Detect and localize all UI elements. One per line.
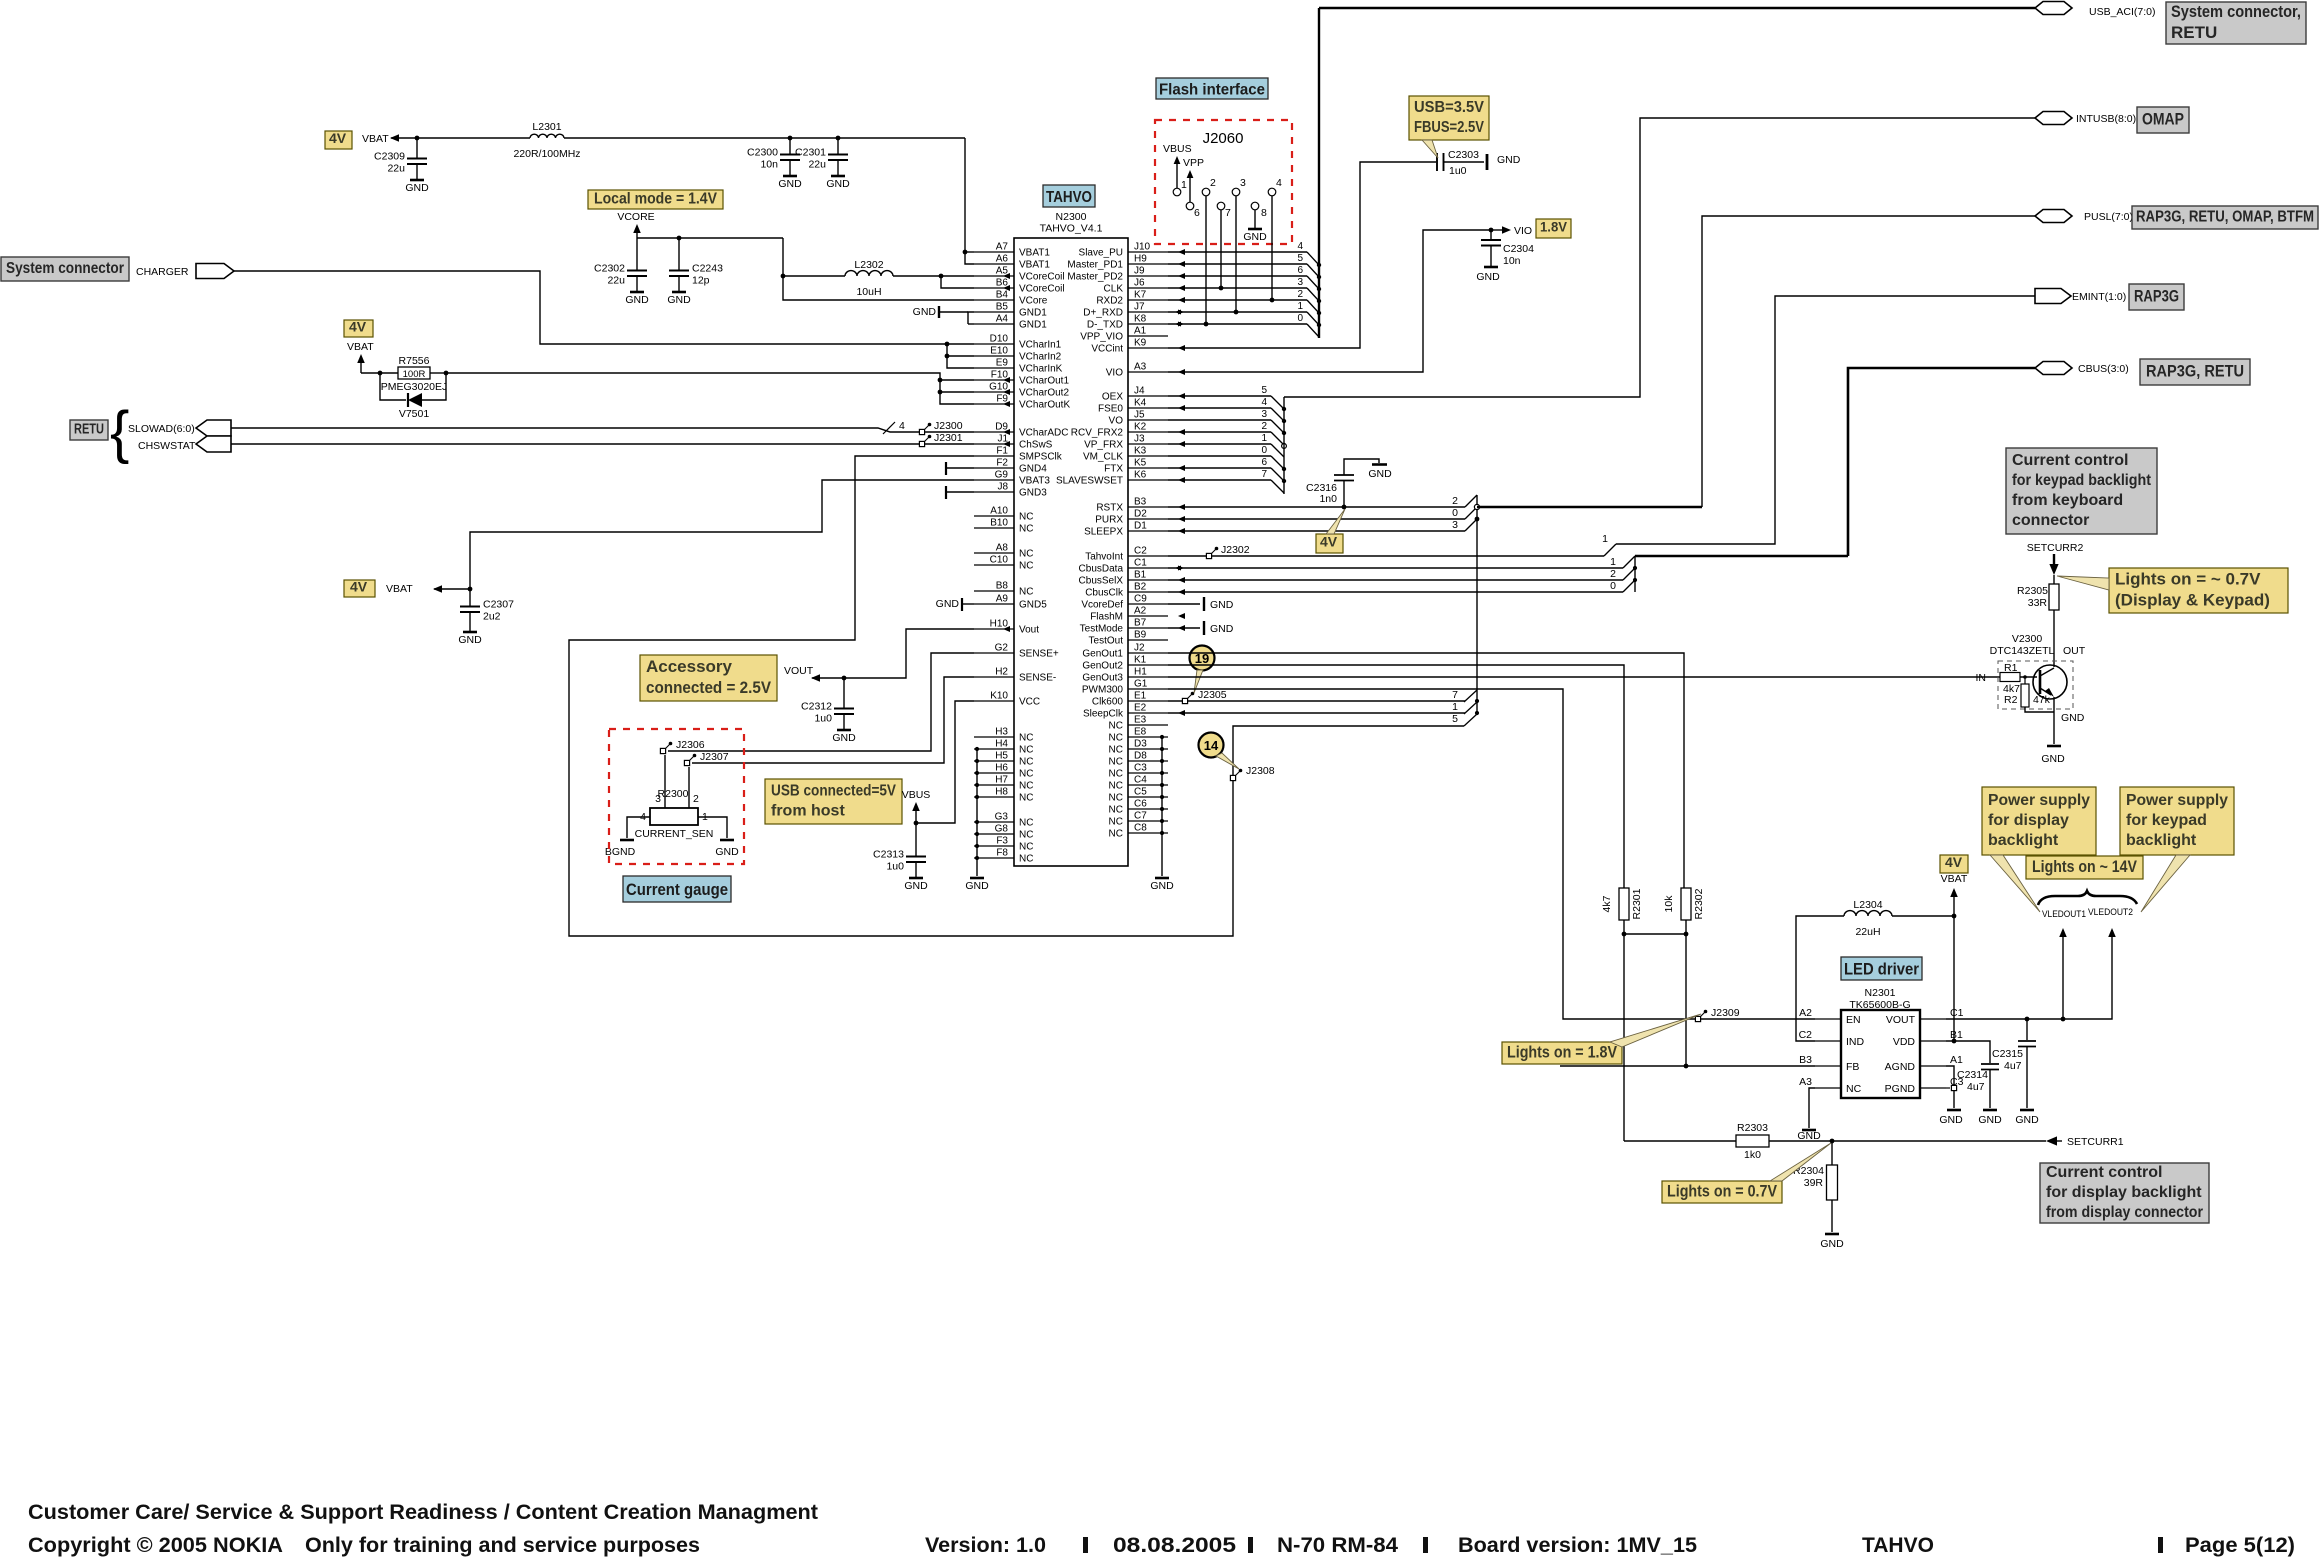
- svg-text:CbusData: CbusData: [1079, 564, 1124, 575]
- svg-text:22uH: 22uH: [1855, 926, 1880, 938]
- connector flag CHSWSTAT: [196, 436, 231, 452]
- svg-text:NC: NC: [1019, 769, 1033, 780]
- svg-text:VOUT: VOUT: [1886, 1014, 1916, 1026]
- svg-text:J4: J4: [1134, 386, 1145, 397]
- svg-text:K8: K8: [1134, 314, 1147, 325]
- wire VCC: [916, 701, 974, 823]
- svg-text:A2: A2: [1799, 1007, 1812, 1019]
- svg-text:4k7: 4k7: [1601, 895, 1613, 912]
- wire SLOWAD to VCharADC: [231, 428, 974, 432]
- INTUSB bus route: [1284, 118, 2035, 397]
- svg-text:GND: GND: [904, 880, 928, 892]
- svg-text:for display backlight: for display backlight: [2046, 1184, 2202, 1201]
- pin direction arrows: [1003, 273, 1010, 279]
- PUSL bus vertical: [1476, 495, 1478, 714]
- svg-text:FlashM: FlashM: [1090, 612, 1123, 623]
- svg-text:0: 0: [1297, 313, 1303, 324]
- svg-text:1u0: 1u0: [814, 713, 832, 725]
- svg-text:C2243: C2243: [692, 263, 723, 275]
- svg-text:3: 3: [1297, 277, 1303, 288]
- BGND lead: [627, 817, 650, 838]
- svg-text:VBAT: VBAT: [1941, 873, 1968, 885]
- svg-text:B5: B5: [996, 302, 1009, 313]
- svg-text:J2300: J2300: [934, 420, 963, 432]
- svg-text:B3: B3: [1134, 497, 1147, 508]
- svg-text:C6: C6: [1134, 799, 1147, 810]
- svg-text:7: 7: [1225, 207, 1231, 219]
- svg-text:GND: GND: [715, 846, 739, 858]
- svg-text:RETU: RETU: [74, 421, 104, 438]
- USB voltage annotation: [1409, 96, 1489, 140]
- TAHVO blue label: [1043, 185, 1095, 207]
- svg-text:GND: GND: [2015, 1114, 2039, 1126]
- jumper J2300: [919, 429, 924, 434]
- jumper J2306: [660, 748, 665, 753]
- svg-text:RAP3G, RETU, OMAP, BTFM: RAP3G, RETU, OMAP, BTFM: [2136, 209, 2314, 226]
- RAP3G RETU gray label: [2140, 359, 2250, 385]
- svg-text:VCoreCoil: VCoreCoil: [1019, 272, 1065, 283]
- svg-text:2: 2: [693, 793, 699, 805]
- wire VCCint: [1168, 162, 1436, 348]
- wire down to VBAT1: [965, 138, 974, 264]
- svg-text:NC: NC: [1019, 757, 1033, 768]
- Current control keypad gray label: [2006, 448, 2157, 534]
- jumper J2307: [684, 760, 689, 765]
- wire SETCURR1: [1624, 1140, 1736, 1142]
- svg-text:SETCURR2: SETCURR2: [2027, 542, 2084, 554]
- svg-text:GND: GND: [2041, 753, 2065, 765]
- svg-text:TAHVO: TAHVO: [1046, 189, 1092, 206]
- svg-text:VPP_VIO: VPP_VIO: [1080, 332, 1123, 343]
- svg-text:C2302: C2302: [594, 263, 625, 275]
- svg-text:C2300: C2300: [747, 147, 778, 159]
- svg-text:for keypad: for keypad: [2126, 812, 2207, 829]
- svg-text:B8: B8: [996, 581, 1009, 592]
- svg-text:D2: D2: [1134, 509, 1147, 520]
- svg-text:FTX: FTX: [1104, 464, 1123, 475]
- svg-text:H3: H3: [995, 727, 1008, 738]
- svg-text:SLAVESWSET: SLAVESWSET: [1056, 476, 1123, 487]
- svg-text:C2309: C2309: [374, 151, 405, 163]
- svg-text:J2306: J2306: [676, 739, 705, 751]
- svg-text:J2307: J2307: [700, 751, 729, 763]
- wire IND to L2304: [1796, 916, 1844, 1041]
- svg-text:H5: H5: [995, 751, 1008, 762]
- svg-text:PGND: PGND: [1885, 1083, 1916, 1095]
- callout circle 19: [1190, 646, 1215, 671]
- wire GenOut2 to R2301: [1168, 665, 1624, 888]
- brace over VLEDOUT: [2038, 891, 2137, 905]
- svg-text:J2305: J2305: [1198, 689, 1227, 701]
- 4V annotation (RSTX): [1316, 534, 1343, 553]
- svg-text:5: 5: [1452, 713, 1458, 725]
- svg-text:0: 0: [1261, 445, 1267, 456]
- svg-text:GenOut2: GenOut2: [1082, 661, 1123, 672]
- svg-text:0: 0: [1610, 580, 1616, 592]
- svg-text:PWM300: PWM300: [1082, 685, 1124, 696]
- svg-text:08.08.2005: 08.08.2005: [1113, 1534, 1236, 1557]
- svg-text:H7: H7: [995, 775, 1008, 786]
- svg-text:GND: GND: [936, 598, 960, 610]
- resistor R2301 4k7: [1619, 888, 1629, 920]
- svg-text:VPP: VPP: [1183, 157, 1204, 169]
- svg-text:B9: B9: [1134, 630, 1147, 641]
- svg-text:E3: E3: [1134, 715, 1147, 726]
- svg-text:V7501: V7501: [399, 408, 430, 420]
- svg-text:B1: B1: [1950, 1029, 1963, 1041]
- svg-text:B7: B7: [1134, 618, 1147, 629]
- svg-text:R2300: R2300: [658, 788, 689, 800]
- connector USB_ACI(7:0): [2035, 2, 2072, 15]
- Lights on 1.8V annotation: [1502, 1042, 1622, 1064]
- svg-text:Local mode = 1.4V: Local mode = 1.4V: [594, 191, 717, 208]
- svg-text:100R: 100R: [403, 369, 426, 380]
- wire to B6: [941, 276, 974, 288]
- jumper J2301: [919, 441, 924, 446]
- svg-text:VcoreDef: VcoreDef: [1081, 600, 1123, 611]
- svg-text:Lights on = 0.7V: Lights on = 0.7V: [1667, 1182, 1778, 1201]
- svg-text:FSE0: FSE0: [1098, 404, 1123, 415]
- svg-text:SleepClk: SleepClk: [1083, 709, 1124, 720]
- GND5 tie: [962, 603, 974, 605]
- svg-text:GND: GND: [1820, 1238, 1844, 1250]
- svg-text:VP_FRX: VP_FRX: [1084, 440, 1123, 451]
- current gauge dashed outline: [609, 729, 744, 864]
- NC pin gnd (A3 of N2301): [1809, 1088, 1815, 1128]
- svg-text:CbusSelX: CbusSelX: [1079, 576, 1124, 587]
- wire CHARGER to VCharIn: [234, 271, 974, 344]
- svg-text:VCORE: VCORE: [617, 211, 654, 223]
- svg-text:GND: GND: [778, 178, 802, 190]
- svg-text:G10: G10: [989, 382, 1008, 393]
- svg-text:D3: D3: [1134, 739, 1147, 750]
- IC right pin stubs and labels: [1128, 251, 1168, 253]
- svg-text:GND: GND: [1978, 1114, 2002, 1126]
- GND1 tie (B5/A4): [968, 312, 974, 324]
- System connector RETU gray label: [2166, 2, 2306, 44]
- svg-text:K5: K5: [1134, 458, 1147, 469]
- svg-text:connected = 2.5V: connected = 2.5V: [646, 678, 772, 697]
- svg-text:H8: H8: [995, 787, 1008, 798]
- svg-text:VO: VO: [1109, 416, 1124, 427]
- svg-text:1: 1: [1602, 533, 1608, 545]
- svg-text:2u2: 2u2: [483, 611, 501, 623]
- svg-text:R2305: R2305: [2017, 585, 2048, 597]
- svg-text:NC: NC: [1109, 829, 1123, 840]
- EMINT route: [1616, 296, 2035, 544]
- VcoreDef GND: [1168, 603, 1200, 605]
- svg-text:D8: D8: [1134, 751, 1147, 762]
- svg-text:0: 0: [1452, 507, 1458, 519]
- svg-text:H1: H1: [1134, 667, 1147, 678]
- wire VDD / capacitor C2314: [1946, 1041, 1990, 1063]
- svg-text:J2308: J2308: [1246, 765, 1275, 777]
- svg-text:J8: J8: [997, 482, 1008, 493]
- bus width 1: [1604, 544, 1616, 556]
- capacitor C2303 (horizontal): [1436, 153, 1438, 171]
- svg-text:B1: B1: [1134, 570, 1147, 581]
- SETCURR2 arrow: [2053, 554, 2055, 566]
- svg-text:C2: C2: [1799, 1029, 1813, 1041]
- svg-text:VCharOut1: VCharOut1: [1019, 376, 1069, 387]
- Accessory annotation: [640, 655, 777, 701]
- svg-text:1n0: 1n0: [1319, 493, 1337, 505]
- capacitor C2304: [1490, 230, 1492, 239]
- svg-text:C2315: C2315: [1992, 1048, 2023, 1060]
- svg-text:H6: H6: [995, 763, 1008, 774]
- resistor R2303 1k0: [1736, 1135, 1769, 1147]
- svg-text:1: 1: [1261, 433, 1267, 444]
- svg-text:GND: GND: [1210, 599, 1234, 611]
- svg-text:SMPSClk: SMPSClk: [1019, 452, 1063, 463]
- svg-text:CLK: CLK: [1104, 284, 1124, 295]
- svg-text:NC: NC: [1019, 854, 1033, 865]
- svg-text:22u: 22u: [607, 275, 625, 287]
- svg-text:N-70 RM-84: N-70 RM-84: [1277, 1534, 1398, 1557]
- bus width 4: [883, 422, 895, 434]
- J2060 pins: [1173, 188, 1181, 196]
- jumper J2305: [1182, 698, 1187, 703]
- wires RSTX PURX SLEEPX: [1168, 506, 1465, 508]
- op-amp/IC N2300 TAHVO_V4.1 body: [1014, 238, 1128, 866]
- svg-text:for display: for display: [1988, 812, 2069, 829]
- svg-text:VIO: VIO: [1514, 225, 1532, 237]
- svg-text:A4: A4: [996, 314, 1009, 325]
- svg-text:A8: A8: [996, 543, 1009, 554]
- 4V supply label (top left): [325, 131, 352, 149]
- svg-text:R2303: R2303: [1737, 1122, 1768, 1134]
- svg-text:SETCURR1: SETCURR1: [2067, 1136, 2124, 1148]
- svg-text:USB connected=5V: USB connected=5V: [771, 783, 896, 800]
- svg-text:C8: C8: [1134, 823, 1147, 834]
- svg-text:K3: K3: [1134, 446, 1147, 457]
- svg-text:4u7: 4u7: [2004, 1060, 2022, 1072]
- svg-text:C2304: C2304: [1503, 243, 1534, 255]
- CBUS bus vertical: [1634, 556, 1636, 592]
- svg-text:Lights on = 1.8V: Lights on = 1.8V: [1507, 1043, 1618, 1062]
- connector PUSL(7:0): [2035, 210, 2072, 223]
- svg-text:GND: GND: [458, 634, 482, 646]
- svg-text:E1: E1: [1134, 691, 1147, 702]
- svg-text:GND: GND: [1150, 880, 1174, 892]
- svg-text:GND5: GND5: [1019, 600, 1047, 611]
- R2301/R2302 junction: [1623, 920, 1625, 1141]
- svg-text:VBAT3: VBAT3: [1019, 476, 1050, 487]
- svg-text:G1: G1: [1134, 679, 1148, 690]
- svg-text:2: 2: [1210, 177, 1216, 189]
- wire VOUT: [1946, 930, 2112, 1019]
- svg-text:4V: 4V: [329, 130, 347, 146]
- svg-text:GND: GND: [826, 178, 850, 190]
- svg-text:RETU: RETU: [2171, 23, 2217, 42]
- svg-text:NC: NC: [1109, 769, 1123, 780]
- Current control display gray label: [2040, 1163, 2209, 1223]
- USB connected annotation: [765, 779, 902, 824]
- capacitor C2243: [677, 236, 682, 241]
- svg-text:DTC143ZETL: DTC143ZETL: [1990, 645, 2055, 657]
- callout circle 14: [1199, 733, 1224, 758]
- svg-text:VBAT1: VBAT1: [1019, 248, 1050, 259]
- svg-text:J2301: J2301: [934, 432, 963, 444]
- CBUS bus route: [1635, 555, 1848, 558]
- svg-text:A7: A7: [996, 242, 1009, 253]
- svg-text:GND4: GND4: [1019, 464, 1047, 475]
- svg-text:D+_RXD: D+_RXD: [1083, 308, 1123, 319]
- svg-text:GND1: GND1: [1019, 308, 1047, 319]
- svg-text:NC: NC: [1019, 524, 1033, 535]
- wire to VCoreCoil / L2302: [783, 238, 974, 300]
- svg-text:G9: G9: [995, 470, 1009, 481]
- svg-text:NC: NC: [1019, 830, 1033, 841]
- capacitor C2309: [415, 136, 420, 141]
- svg-text:12p: 12p: [692, 275, 710, 287]
- svg-text:VBUS: VBUS: [902, 789, 931, 801]
- svg-text:H10: H10: [990, 619, 1009, 630]
- svg-text:CbusClk: CbusClk: [1085, 588, 1124, 599]
- svg-text:N2301: N2301: [1865, 987, 1896, 999]
- svg-text:J5: J5: [1134, 410, 1145, 421]
- svg-text:GND: GND: [913, 306, 937, 318]
- svg-text:1.8V: 1.8V: [1540, 219, 1568, 235]
- Flash interface blue label: [1156, 78, 1268, 99]
- svg-text:J2: J2: [1134, 643, 1145, 654]
- svg-text:J2302: J2302: [1221, 544, 1250, 556]
- svg-text:NC: NC: [1019, 842, 1033, 853]
- IC left pin stubs and labels: [974, 251, 1014, 253]
- svg-text:VM_CLK: VM_CLK: [1083, 452, 1123, 463]
- svg-text:NC: NC: [1109, 733, 1123, 744]
- svg-text:B3: B3: [1799, 1054, 1812, 1066]
- svg-text:K9: K9: [1134, 338, 1147, 349]
- VBAT arrow: [357, 354, 365, 363]
- diode V7501 PMEG3020EJ: [380, 373, 406, 400]
- svg-text:System connector: System connector: [6, 260, 124, 277]
- svg-text:C2303: C2303: [1448, 149, 1479, 161]
- svg-text:LED driver: LED driver: [1844, 960, 1919, 979]
- pin8 wire to GND: [1254, 210, 1256, 228]
- svg-text:OUT: OUT: [2063, 645, 2086, 657]
- svg-text:NC: NC: [1019, 512, 1033, 523]
- svg-text:Power supply: Power supply: [2126, 792, 2228, 809]
- svg-text:C2: C2: [1134, 546, 1147, 557]
- capacitor C2316: [1342, 505, 1347, 510]
- svg-text:2: 2: [1261, 421, 1267, 432]
- svg-text:VCharInK: VCharInK: [1019, 364, 1063, 375]
- svg-text:GenOut1: GenOut1: [1082, 649, 1123, 660]
- svg-text:RCV_FRX2: RCV_FRX2: [1071, 428, 1124, 439]
- svg-text:SLOWAD(6:0): SLOWAD(6:0): [128, 423, 195, 435]
- svg-text:C2301: C2301: [795, 147, 826, 159]
- capacitor C2307: [469, 589, 471, 607]
- svg-text:J2309: J2309: [1711, 1007, 1740, 1019]
- RAP3G gray label: [2129, 284, 2184, 310]
- svg-text:C10: C10: [990, 555, 1009, 566]
- svg-text:10n: 10n: [1503, 255, 1521, 267]
- wires Slave_PU..D-_TXD to bus: [1168, 251, 1307, 253]
- PUSL bus route: [1477, 506, 1702, 509]
- capacitor C2312: [843, 678, 845, 709]
- wire GenOut3 to V2300: [1168, 676, 2000, 678]
- svg-text:GND: GND: [1476, 271, 1500, 283]
- svg-text:3: 3: [655, 793, 661, 805]
- svg-text:VCoreCoil: VCoreCoil: [1019, 284, 1065, 295]
- svg-text:from keyboard: from keyboard: [2012, 492, 2123, 509]
- svg-text:1u0: 1u0: [886, 861, 904, 873]
- svg-text:GND3: GND3: [1019, 488, 1047, 499]
- svg-text:IN: IN: [1976, 672, 1987, 684]
- svg-text:7: 7: [1261, 469, 1267, 480]
- USB_ACI bus top wire: [1319, 7, 2035, 9]
- svg-text:E10: E10: [990, 346, 1008, 357]
- wire PWM300 to EN: [1168, 689, 1815, 1019]
- svg-text:FBUS=2.5V: FBUS=2.5V: [1414, 119, 1484, 136]
- svg-text:H4: H4: [995, 739, 1008, 750]
- svg-text:CHSWSTAT: CHSWSTAT: [138, 440, 196, 452]
- svg-text:L2301: L2301: [532, 121, 561, 133]
- svg-text:VCharADC: VCharADC: [1019, 428, 1068, 439]
- svg-text:A6: A6: [996, 254, 1009, 265]
- svg-text:C4: C4: [1134, 775, 1147, 786]
- svg-text:39R: 39R: [1804, 1177, 1824, 1189]
- svg-text:Page 5(12): Page 5(12): [2185, 1534, 2295, 1557]
- svg-text:2: 2: [1297, 289, 1303, 300]
- svg-text:2: 2: [1452, 495, 1458, 507]
- svg-text:OEX: OEX: [1102, 392, 1123, 403]
- svg-text:A10: A10: [990, 506, 1008, 517]
- svg-text:3: 3: [1452, 519, 1458, 531]
- svg-text:Copyright © 2005 NOKIA: Copyright © 2005 NOKIA: [28, 1534, 283, 1557]
- connector INTUSB(8:0): [2035, 112, 2072, 125]
- svg-text:System connector,: System connector,: [2171, 2, 2301, 21]
- svg-text:4: 4: [1297, 241, 1303, 252]
- svg-text:K2: K2: [1134, 422, 1147, 433]
- System connector gray label: [1, 257, 129, 281]
- svg-text:C3: C3: [1134, 763, 1147, 774]
- svg-text:GenOut3: GenOut3: [1082, 673, 1123, 684]
- svg-text:R2: R2: [2004, 694, 2018, 706]
- svg-text:L2302: L2302: [854, 259, 883, 271]
- svg-text:Slave_PU: Slave_PU: [1079, 248, 1123, 259]
- inductor L2302: [845, 271, 893, 276]
- svg-text:GND: GND: [1497, 154, 1521, 166]
- svg-text:NC: NC: [1109, 757, 1123, 768]
- svg-text:10k: 10k: [1663, 895, 1675, 913]
- svg-text:INTUSB(8:0): INTUSB(8:0): [2076, 113, 2136, 125]
- svg-text:VDD: VDD: [1893, 1036, 1916, 1048]
- svg-text:1u0: 1u0: [1449, 165, 1467, 177]
- svg-text:NC: NC: [1019, 733, 1033, 744]
- svg-text:4: 4: [899, 420, 905, 432]
- svg-text:GND: GND: [1797, 1130, 1821, 1142]
- svg-text:10n: 10n: [760, 159, 778, 171]
- jumper J2309: [1695, 1016, 1700, 1021]
- svg-text:TAHVO: TAHVO: [1862, 1534, 1934, 1557]
- inductor L2301: [530, 134, 564, 138]
- wires Cbus: [1168, 567, 1623, 569]
- resistor R2305 33R: [2053, 575, 2055, 584]
- svg-text:10uH: 10uH: [856, 286, 881, 298]
- svg-text:D-_TXD: D-_TXD: [1087, 320, 1123, 331]
- jumper J2302: [1206, 553, 1211, 558]
- pin2 wire: [1205, 196, 1207, 324]
- svg-text:B10: B10: [990, 518, 1008, 529]
- 1.8V annotation: [1536, 219, 1571, 238]
- svg-text:1k0: 1k0: [1744, 1149, 1761, 1161]
- svg-text:G3: G3: [995, 812, 1009, 823]
- TestMode GND: [1168, 627, 1200, 629]
- svg-text:PUSL(7:0): PUSL(7:0): [2084, 211, 2133, 223]
- svg-text:backlight: backlight: [1988, 832, 2059, 849]
